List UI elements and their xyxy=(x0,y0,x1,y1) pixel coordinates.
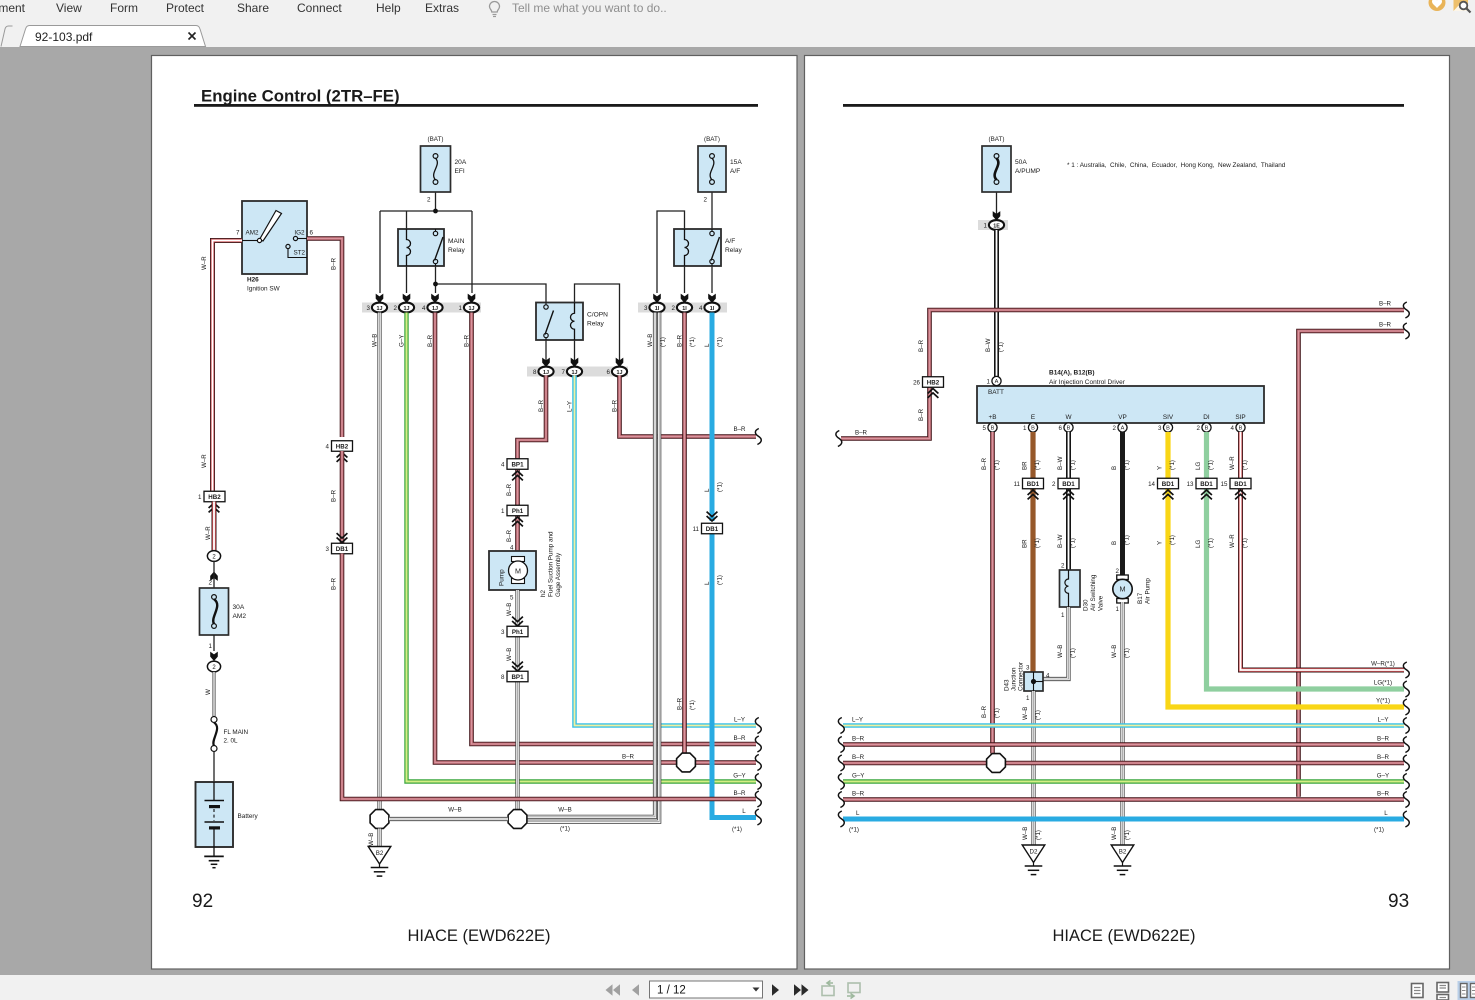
junction oval 1J-7 xyxy=(562,367,583,377)
svg-text:B–W: B–W xyxy=(1057,534,1064,548)
svg-text:1: 1 xyxy=(1116,606,1120,613)
wire APUMP fuse to 1E xyxy=(996,192,998,214)
labels right edge xyxy=(622,717,746,834)
svg-text:SIV: SIV xyxy=(1163,414,1174,421)
svg-text:1: 1 xyxy=(987,378,991,385)
connector BP1-8 xyxy=(501,671,528,682)
wire B-R H26 to HB2-4 xyxy=(307,239,342,438)
svg-text:W–B: W–B xyxy=(647,334,654,347)
labels bus right xyxy=(1374,717,1390,834)
svg-text:BP1: BP1 xyxy=(511,462,524,469)
pin ECU pin VP xyxy=(1113,423,1128,432)
connector DB1-3 xyxy=(326,543,353,554)
svg-text:8: 8 xyxy=(533,369,537,376)
svg-text:L–Y: L–Y xyxy=(566,401,573,412)
continuation mark edge BR1 xyxy=(755,736,761,752)
relay A/F relay xyxy=(674,229,743,266)
junction oval 1I-3 xyxy=(644,303,665,313)
svg-text:4: 4 xyxy=(422,305,426,312)
fuse AM2 30A xyxy=(200,588,247,635)
svg-text:2: 2 xyxy=(1113,425,1117,432)
wire W-B pump to Ph1-3 xyxy=(515,590,519,627)
label L-Y under 1J-7 xyxy=(566,401,573,412)
junction oval 1I-4 xyxy=(699,303,720,313)
continuation mark edge93 GY-r xyxy=(1403,774,1409,790)
svg-text:HIACE (EWD622E): HIACE (EWD622E) xyxy=(407,927,550,945)
label W-B below D43 xyxy=(1022,707,1042,720)
svg-text:+B: +B xyxy=(989,414,997,421)
svg-text:HB2: HB2 xyxy=(208,494,221,501)
svg-text:(*1): (*1) xyxy=(1124,648,1131,658)
svg-text:(*1): (*1) xyxy=(1070,538,1077,548)
svg-text:(*1): (*1) xyxy=(1035,830,1042,840)
svg-text:Ph1: Ph1 xyxy=(512,508,524,515)
svg-text:B–R: B–R xyxy=(1379,322,1392,329)
wire W-R SIP to edge xyxy=(1241,432,1405,670)
label L under 1I-4 xyxy=(704,337,724,347)
connector Ph1-3 xyxy=(501,626,528,637)
svg-text:1J: 1J xyxy=(572,370,578,376)
svg-text:B14(A), B12(B): B14(A), B12(B) xyxy=(1049,370,1095,377)
svg-text:Air Injection Control Driver: Air Injection Control Driver xyxy=(1049,379,1126,386)
svg-text:Y: Y xyxy=(1156,466,1163,470)
svg-text:B–W: B–W xyxy=(1057,456,1064,470)
svg-text:92: 92 xyxy=(192,891,213,912)
svg-text:W–B: W–B xyxy=(558,807,571,814)
connector HB2-1 xyxy=(198,491,225,502)
svg-text:B–R: B–R xyxy=(1379,301,1392,308)
svg-text:(*1): (*1) xyxy=(1124,460,1131,470)
svg-text:B–R: B–R xyxy=(981,705,988,718)
svg-text:W–R(*1): W–R(*1) xyxy=(1371,661,1395,668)
svg-text:1: 1 xyxy=(209,643,213,650)
connector arrows BD1-15 xyxy=(1235,490,1246,499)
svg-text:Air Switching: Air Switching xyxy=(1090,574,1097,611)
label B-R Ph1-pump xyxy=(506,529,513,542)
svg-text:MAIN: MAIN xyxy=(448,238,465,245)
svg-text:W: W xyxy=(205,689,212,695)
svg-text:1E: 1E xyxy=(993,223,1000,229)
svg-text:B17: B17 xyxy=(1137,592,1144,604)
junction oval 1I-2 xyxy=(672,303,693,313)
svg-text:W–B: W–B xyxy=(1111,827,1118,840)
svg-text:(*1): (*1) xyxy=(717,337,724,347)
svg-text:15: 15 xyxy=(1221,481,1228,488)
wire COPN sw to 1J-8 xyxy=(545,340,547,362)
svg-text:Battery: Battery xyxy=(238,813,259,820)
wire B-R edge to HB2 xyxy=(841,387,930,439)
svg-text:(*1): (*1) xyxy=(1124,830,1131,840)
svg-text:W: W xyxy=(1065,414,1072,421)
pin ECU pin W xyxy=(1059,423,1074,432)
connector arrows BD1-14 xyxy=(1163,490,1174,499)
svg-text:B–R: B–R xyxy=(1377,736,1390,743)
connector BD1-15 xyxy=(1221,478,1251,489)
svg-text:1J: 1J xyxy=(404,306,410,312)
wire COPN coil to 1J-7 xyxy=(574,340,576,362)
continuation mark edge93 LY-r xyxy=(1403,718,1409,734)
svg-text:1: 1 xyxy=(984,222,988,229)
connector HB2-4 xyxy=(326,441,353,452)
svg-text:Connector: Connector xyxy=(1018,662,1025,691)
connector band 1E band xyxy=(978,220,1008,230)
continuation mark edge93 GY-l xyxy=(838,774,844,790)
arrow into 1J-2 xyxy=(403,294,411,303)
svg-text:W–R: W–R xyxy=(201,256,208,270)
ground D2 ground xyxy=(1022,845,1045,875)
connector BD1-13 xyxy=(1187,478,1217,489)
wire W-R H26 to HB2 xyxy=(213,241,243,493)
svg-text:4: 4 xyxy=(326,444,330,451)
wire COPN coil feed xyxy=(575,284,620,362)
svg-text:3: 3 xyxy=(644,305,648,312)
label B-R below DB1 xyxy=(330,577,337,590)
svg-text:BR: BR xyxy=(1021,539,1028,548)
svg-text:Junction: Junction xyxy=(1011,667,1018,691)
relay MAIN relay xyxy=(398,229,466,266)
svg-text:SIP: SIP xyxy=(1235,414,1245,421)
svg-text:B: B xyxy=(1111,466,1118,470)
svg-text:B–R: B–R xyxy=(622,754,635,761)
svg-text:1: 1 xyxy=(1023,425,1027,432)
label W-B above B2r xyxy=(1111,827,1131,840)
label W-B under 1J-3 xyxy=(371,334,378,347)
continuation mark edge93 L-l xyxy=(838,811,844,827)
relay C/OPN relay xyxy=(536,303,608,341)
continuation mark edge93 BR3-r xyxy=(1403,792,1409,808)
continuation mark edge93 LG-r xyxy=(1403,681,1409,697)
svg-text:1J: 1J xyxy=(543,370,549,376)
label B-R above octagon right xyxy=(981,705,1001,718)
svg-text:2: 2 xyxy=(427,197,431,204)
wire MAIN coil to 1J-2 xyxy=(406,266,408,293)
svg-text:L–Y: L–Y xyxy=(852,717,863,724)
wire W oval2b to FL xyxy=(213,672,216,716)
svg-text:BATT: BATT xyxy=(988,389,1004,396)
svg-text:93: 93 xyxy=(1388,891,1409,912)
svg-text:2: 2 xyxy=(1116,568,1120,575)
continuation mark edge LY xyxy=(755,718,761,734)
connector arrows HB2-1 xyxy=(209,503,220,512)
connector arrows HB2-26 xyxy=(928,389,939,398)
connector band 1I band xyxy=(638,303,727,313)
svg-text:B–R: B–R xyxy=(611,399,618,412)
svg-text:BP1: BP1 xyxy=(511,674,524,681)
svg-text:Ph1: Ph1 xyxy=(512,629,524,636)
svg-text:(*1): (*1) xyxy=(1169,460,1176,470)
svg-text:(*1): (*1) xyxy=(1208,460,1215,470)
svg-text:(*1): (*1) xyxy=(1169,535,1176,545)
fuse A/PUMP 50A xyxy=(982,136,1041,192)
svg-text:B–R: B–R xyxy=(427,334,434,347)
junction oval 1J-4 xyxy=(422,303,443,313)
wire bus B-R 3 xyxy=(843,797,1404,802)
svg-text:DI: DI xyxy=(1203,414,1210,421)
label B-W mid xyxy=(1057,534,1077,548)
wire to AM2 fuse xyxy=(213,561,215,588)
page 93 sheet xyxy=(805,56,1450,970)
svg-text:IG2: IG2 xyxy=(294,230,305,237)
svg-text:Pump: Pump xyxy=(499,569,506,586)
svg-text:2: 2 xyxy=(1052,481,1056,488)
svg-text:(*1): (*1) xyxy=(689,337,696,347)
svg-text:W–B: W–B xyxy=(371,334,378,347)
svg-text:1: 1 xyxy=(501,508,505,515)
svg-text:B–R: B–R xyxy=(676,697,683,710)
svg-text:2: 2 xyxy=(672,305,676,312)
wire AF fuse to relay xyxy=(711,192,713,229)
svg-text:W–R: W–R xyxy=(201,454,208,468)
label B-W to ECU xyxy=(985,338,1005,352)
wire B-R Ph1 to pump xyxy=(515,516,520,552)
svg-text:L–Y: L–Y xyxy=(734,717,745,724)
svg-text:h2: h2 xyxy=(540,589,547,597)
svg-text:4: 4 xyxy=(501,462,505,469)
svg-text:B2: B2 xyxy=(376,850,384,857)
svg-text:(*1): (*1) xyxy=(1374,827,1384,834)
junction oval 1J-1 xyxy=(459,303,480,313)
svg-text:4: 4 xyxy=(1231,425,1235,432)
continuation mark edge93 L-r xyxy=(1403,811,1409,827)
arrow into 1I-2 xyxy=(681,294,689,303)
labels bus left xyxy=(849,717,865,834)
continuation mark edge93 BR2-r xyxy=(1403,755,1409,771)
svg-text:Ignition SW: Ignition SW xyxy=(247,286,281,293)
svg-text:3: 3 xyxy=(1026,665,1030,672)
svg-text:6: 6 xyxy=(607,369,611,376)
svg-text:26: 26 xyxy=(913,380,920,387)
svg-text:5: 5 xyxy=(983,425,987,432)
svg-text:2: 2 xyxy=(1197,425,1201,432)
wire B-W 1E to ECU xyxy=(994,230,999,377)
junction oval 1J-2 xyxy=(394,303,415,313)
svg-text:Relay: Relay xyxy=(725,247,743,254)
connector arrows Ph1-3 xyxy=(512,617,523,626)
svg-text:3: 3 xyxy=(367,305,371,312)
arrow into oval 2a xyxy=(210,572,218,581)
svg-text:HB2: HB2 xyxy=(927,380,940,387)
svg-text:(*1): (*1) xyxy=(1034,538,1041,548)
svg-text:B–R: B–R xyxy=(852,791,865,798)
continuation mark B-R upper xyxy=(755,429,761,445)
svg-text:B: B xyxy=(1067,426,1071,432)
connector arrows HB2-4 xyxy=(337,453,348,462)
wire FL to battery xyxy=(213,752,215,783)
svg-text:30A: 30A xyxy=(233,604,245,611)
connector HB2-26 xyxy=(913,377,943,388)
svg-text:B–R: B–R xyxy=(733,426,746,433)
wire bus L-Y xyxy=(843,723,1404,728)
label W-B below D30 xyxy=(1057,645,1077,658)
label LG mid xyxy=(1195,538,1215,548)
label BR below E xyxy=(1021,460,1041,470)
wire B-R 1J-6 to edge xyxy=(620,376,757,437)
svg-text:(*1): (*1) xyxy=(1070,460,1077,470)
svg-text:1J: 1J xyxy=(469,306,475,312)
svg-text:D30: D30 xyxy=(1083,599,1090,611)
wire W-B 1J-3 to splice xyxy=(377,313,381,811)
svg-text:L–Y: L–Y xyxy=(1377,717,1388,724)
svg-text:* 1 : Australia, Chile, Chin: * 1 : Australia, Chile, China, Ecuador, … xyxy=(1067,162,1286,169)
connector DB1-11 xyxy=(693,523,723,534)
wire W-B splice to ground xyxy=(377,829,381,847)
continuation mark edge93 BR3-l xyxy=(838,792,844,808)
oval terminal 2a xyxy=(207,551,220,562)
svg-text:Y: Y xyxy=(1156,541,1163,545)
svg-text:B–R: B–R xyxy=(852,736,865,743)
label W-R mid xyxy=(1229,534,1249,548)
wire feed bus y211 xyxy=(380,210,472,212)
label LG below DI xyxy=(1195,460,1215,470)
wire to MAIN relay coil xyxy=(406,211,408,229)
svg-text:BR: BR xyxy=(1021,461,1028,470)
svg-text:Air Pump: Air Pump xyxy=(1145,578,1152,604)
connector band 1J band xyxy=(362,303,481,313)
svg-text:C/OPN: C/OPN xyxy=(587,312,608,319)
connector BD1-14 xyxy=(1148,478,1178,489)
junction connector D43 xyxy=(1004,662,1044,691)
wire B-R 1I-2 to octagon xyxy=(682,313,687,754)
svg-text:B–R: B–R xyxy=(733,735,746,742)
valve D30 xyxy=(1060,570,1105,611)
motor B17 air pump xyxy=(1113,575,1152,604)
label W-B pump-Ph1 xyxy=(506,603,513,616)
label W-R below HB2 xyxy=(205,526,212,540)
svg-text:A: A xyxy=(1121,426,1125,432)
continuation mark edge93 BR1-l xyxy=(838,737,844,753)
svg-text:AM2: AM2 xyxy=(246,230,259,237)
connector arrows DB1-11 xyxy=(707,512,718,521)
oval terminal 2b xyxy=(207,661,220,672)
svg-text:(*1): (*1) xyxy=(994,460,1001,470)
continuation mark edge93 BR1-r xyxy=(1403,737,1409,753)
svg-text:B–R: B–R xyxy=(506,483,513,496)
connector arrows BD1-11 xyxy=(1028,490,1039,499)
label W-R H26 upper xyxy=(201,256,208,270)
svg-text:3: 3 xyxy=(326,546,330,553)
title Engine Control xyxy=(201,87,400,106)
label W-B to B2 xyxy=(368,833,375,846)
svg-text:(*1): (*1) xyxy=(1124,535,1131,545)
wire BR E to D43 xyxy=(1030,432,1035,672)
battery xyxy=(196,782,259,847)
fusible link FL MAIN xyxy=(211,717,249,752)
svg-text:1 / 12: 1 / 12 xyxy=(657,985,686,997)
svg-text:B–R: B–R xyxy=(463,334,470,347)
label B-R under 1J-4 xyxy=(427,334,434,347)
node EFI junction xyxy=(433,209,438,214)
svg-text:(*1): (*1) xyxy=(994,708,1001,718)
junction oval 1E-1 xyxy=(984,220,1005,230)
wire bus L xyxy=(843,817,1404,822)
connector Ph1-1 xyxy=(501,505,528,516)
connector arrows BP1-4 xyxy=(512,471,523,480)
svg-text:HIACE (EWD622E): HIACE (EWD622E) xyxy=(1052,927,1195,945)
wire W-B BP1-8 to splice xyxy=(515,682,519,810)
svg-text:1I: 1I xyxy=(655,306,660,312)
wire B-R 1J-1 to edge xyxy=(472,313,757,745)
connector arrows BD1-2 xyxy=(1063,490,1074,499)
svg-text:G–Y: G–Y xyxy=(733,773,745,780)
svg-text:D43: D43 xyxy=(1004,679,1011,691)
connector band 1J band 2 xyxy=(527,367,628,377)
svg-text:(*1): (*1) xyxy=(1034,460,1041,470)
svg-text:7: 7 xyxy=(562,369,566,376)
wire L DB1 to edge xyxy=(712,534,756,818)
svg-text:A/PUMP: A/PUMP xyxy=(1015,168,1041,175)
wire node2 to COPN sw xyxy=(436,284,547,303)
label B-R under 1J-6 xyxy=(611,399,618,412)
wire L 1I-4 to DB1 xyxy=(710,313,715,522)
svg-text:FL MAIN: FL MAIN xyxy=(224,729,249,736)
wire MAIN sw to node2 xyxy=(435,266,437,293)
node MAIN relay out junction xyxy=(433,282,438,287)
svg-text:1I: 1I xyxy=(682,306,687,312)
connector BD1-2 xyxy=(1052,478,1079,489)
arrow into 1J-7 xyxy=(571,358,579,367)
wire bus B-R 1 xyxy=(843,742,1404,747)
pin ECU pin DI xyxy=(1197,423,1212,432)
svg-text:M: M xyxy=(515,567,521,576)
wire W-B B17 to ground xyxy=(1120,602,1124,845)
junction oval 1J-6 xyxy=(607,367,628,377)
svg-text:Y(*1): Y(*1) xyxy=(1376,698,1390,705)
label W-B under 1I-3 xyxy=(647,334,667,347)
svg-text:L: L xyxy=(742,808,746,815)
arrow into 1J-4 xyxy=(431,294,439,303)
continuation mark edge93 WR-r xyxy=(1403,662,1409,678)
wire AF sw to 1I-4 xyxy=(711,266,713,293)
svg-text:7: 7 xyxy=(236,230,240,237)
svg-text:G–Y: G–Y xyxy=(398,335,405,347)
svg-text:1J: 1J xyxy=(377,306,383,312)
svg-text:11: 11 xyxy=(693,526,700,533)
svg-text:B–R: B–R xyxy=(981,457,988,470)
svg-text:B–R: B–R xyxy=(506,529,513,542)
continuation mark edge93 LY-l xyxy=(838,718,844,734)
battery ground xyxy=(204,847,224,868)
wire B-W W to D30 xyxy=(1066,432,1071,570)
svg-text:2: 2 xyxy=(209,580,213,587)
connector BD1-11 xyxy=(1014,478,1044,489)
wire to 1J-3 xyxy=(379,211,381,293)
svg-text:(*1): (*1) xyxy=(717,575,724,585)
junction oval 1J-8 xyxy=(533,367,554,377)
wire AF coil feed xyxy=(657,211,685,293)
labels Y LG WR right xyxy=(1371,661,1395,705)
svg-text:20A: 20A xyxy=(455,159,467,166)
label B-R under 1I-2 xyxy=(676,334,696,347)
label W-B below B17 xyxy=(1111,645,1131,658)
svg-text:(*1): (*1) xyxy=(1070,648,1077,658)
svg-text:Valve: Valve xyxy=(1098,595,1105,611)
svg-text:B2: B2 xyxy=(1119,849,1127,856)
svg-text:A/F: A/F xyxy=(725,238,735,245)
pin ECU pin SIV xyxy=(1158,423,1173,432)
svg-text:DB1: DB1 xyxy=(706,526,719,533)
ground B2 ground xyxy=(368,847,391,877)
wire B VP to B17 xyxy=(1120,432,1125,578)
svg-text:LG(*1): LG(*1) xyxy=(1374,680,1392,687)
continuation mark edge L xyxy=(755,809,761,825)
continuation mark edge BR2 xyxy=(755,755,761,771)
svg-text:1: 1 xyxy=(459,305,463,312)
svg-text:L: L xyxy=(704,488,711,492)
svg-text:W–R: W–R xyxy=(1229,456,1236,470)
svg-text:1: 1 xyxy=(1061,612,1065,619)
fuse A/F 15A xyxy=(698,136,742,204)
svg-text:B: B xyxy=(1031,426,1035,432)
